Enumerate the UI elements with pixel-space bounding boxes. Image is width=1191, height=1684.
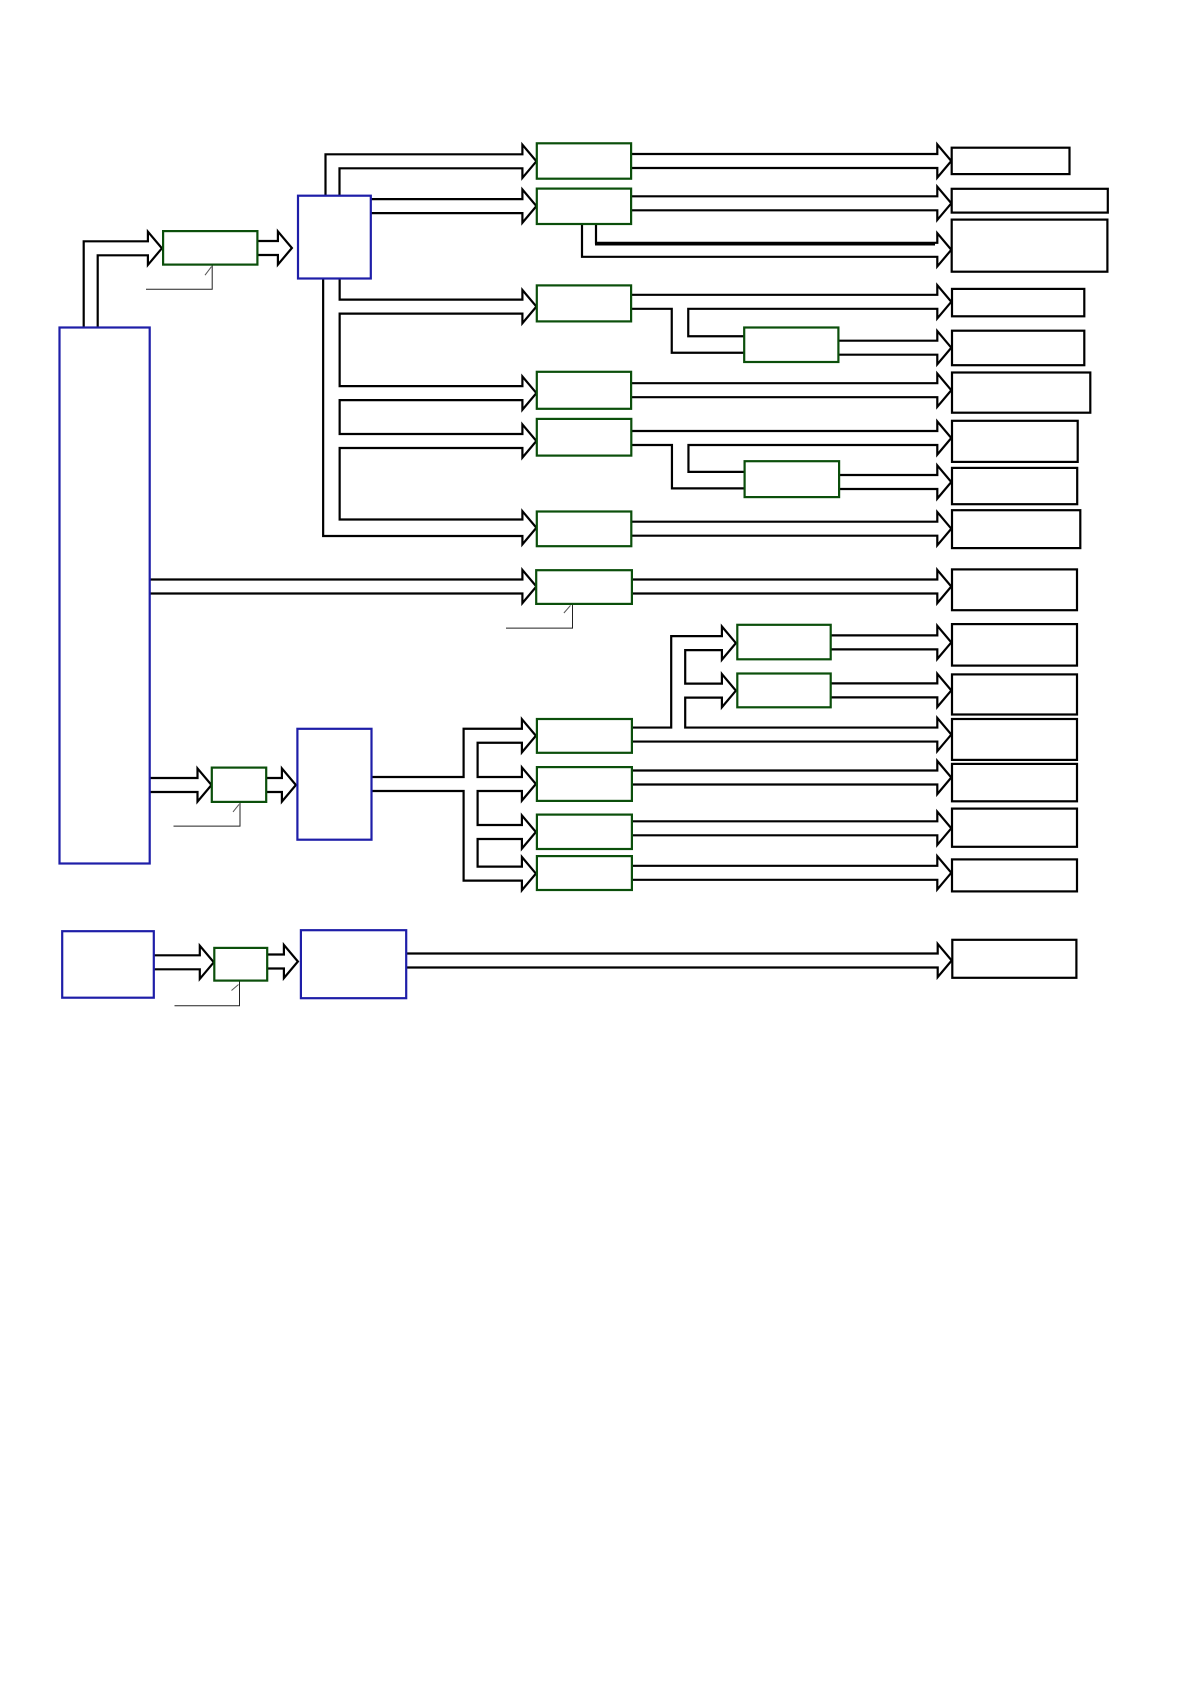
branch sub-bus to green box L (outline) <box>678 683 722 699</box>
arrowhead of wire green row4 to black box F <box>937 374 951 407</box>
wire green row8 to black box M (outline) <box>631 726 937 742</box>
callout leader of small green box 3 <box>175 981 240 1006</box>
arrowhead of branch bus1 to green row5 <box>522 424 536 457</box>
wire green row6 to black box I (hollow interior) <box>630 523 940 535</box>
arrowhead of wire mid green box 2 to black box H <box>937 465 951 498</box>
wire tall blue box to small green box 2 (hollow interior) <box>149 779 201 791</box>
branch row3 output down to mid green box 1 (outline) <box>680 302 747 345</box>
wire green row4 to black box F (outline) <box>630 382 937 398</box>
arrowhead of wire blue-box-1 top to green row1 <box>522 145 536 178</box>
callout leader of top-left green box <box>146 265 212 290</box>
wire mid green box 2 to black box H (hollow interior) <box>838 476 941 488</box>
wire green row10 to black box O (outline) <box>631 820 937 836</box>
arrowhead of branch sub-bus to green box L <box>722 674 736 707</box>
wire green row2 to black box B (outline) <box>630 195 937 211</box>
branch bus2 to green row10 (outline) <box>471 824 522 840</box>
arrowhead of wire small blue box 3 to small green box 3 <box>200 946 214 979</box>
green row4 box <box>537 372 631 409</box>
wire green row6 to black box I (outline) <box>630 521 937 537</box>
wire green row1 to black box A (outline) <box>630 153 937 169</box>
wire blue-box-1 right to green row2 (outline) <box>370 198 523 214</box>
branch bus1 to green row3 (outline) <box>331 299 522 315</box>
arrowhead of wire green row9 to black box N <box>937 761 951 794</box>
black box Q <box>952 940 1076 978</box>
arrowhead of branch bus2 to green row10 <box>522 815 536 848</box>
black box P <box>952 859 1077 891</box>
arrowhead of wire green row5 to black box G <box>937 421 951 454</box>
bus below blue-box-1 down to green row6 (outline) <box>331 278 522 528</box>
wire blue-box-1 right to green row2 (hollow interior) <box>370 200 526 212</box>
black box J <box>952 569 1077 610</box>
arrowhead of wire tall blue box top to top-left green box <box>148 232 162 265</box>
green box L (lower mid-right) <box>737 674 830 708</box>
black box N <box>952 764 1077 801</box>
arrowhead of wire mid green box 1 to black box E <box>937 331 951 364</box>
wire tall blue box to green row7 (outline) <box>149 578 523 594</box>
branch bus1 to green row4 (hollow interior) <box>331 387 525 399</box>
bus2 vertical row8 to row11 (hollow interior) <box>471 736 525 874</box>
wire green row4 to black box F (hollow interior) <box>630 384 940 396</box>
wire small blue box 3 to small green box 3 (outline) <box>153 954 200 970</box>
arrowhead of wire tall blue box to green row7 <box>522 570 536 603</box>
arrowhead of branch bus1 to green row4 <box>522 377 536 410</box>
wire green row2 to black box B (hollow interior) <box>630 197 940 209</box>
arrowhead of wire green row6 to black box I <box>937 512 951 545</box>
arrowhead of wire green row1 to black box A <box>937 144 951 177</box>
tall blue box (left source) <box>60 328 150 864</box>
wire green row3 to black box D (outline) <box>630 294 937 310</box>
black box C <box>952 220 1108 272</box>
wire green box K to black box K (outline) <box>830 634 938 650</box>
wire green row7 to black box J (hollow interior) <box>631 581 940 593</box>
sub-bus from row8 output up to green box K (hollow interior) <box>678 643 725 734</box>
arrowhead of wire small green box 2 to blue box 2 <box>282 768 296 801</box>
wire blue box 2 through bus to green row9 (hollow interior) <box>371 778 525 790</box>
wire green row2 bottom to black box C (hollow interior) <box>589 223 940 250</box>
bus2 vertical row8 to row11 (outline) <box>471 736 522 874</box>
green row1 box <box>537 143 631 178</box>
wire top-left green box to blue box 1 (hollow interior) <box>256 242 281 254</box>
black box I <box>952 510 1080 548</box>
wire blue-box-1 top to green row1 (outline) <box>333 161 523 196</box>
green row11 box <box>537 856 632 890</box>
arrowhead bus2 row8 <box>522 719 536 752</box>
small green box 2 <box>212 768 266 802</box>
wire mid green box 1 to black box E (hollow interior) <box>837 342 940 354</box>
top-left green box <box>163 231 257 265</box>
wire green row5 to black box G (outline) <box>630 430 937 446</box>
branch bus2 to green row10 (hollow interior) <box>471 826 525 838</box>
arrowhead of wire green row2 to black box B <box>937 187 951 220</box>
wire green row11 to black box P (hollow interior) <box>631 867 940 879</box>
wire green box L to black box L (hollow interior) <box>830 685 941 697</box>
wire green row3 to black box D (hollow interior) <box>630 296 940 308</box>
branch bus1 to green row5 (hollow interior) <box>331 435 525 447</box>
arrowhead of wire green row8 to black box M <box>937 718 951 751</box>
wire green row2 bottom to black box C (outline) <box>589 223 937 250</box>
wire green row5 to black box G (hollow interior) <box>630 432 940 444</box>
wire blue-box-1 top to green row1 (hollow interior) <box>333 161 526 196</box>
wire blue box 4 to black box Q (hollow interior) <box>405 955 941 967</box>
wire blue box 2 through bus to green row9 (outline) <box>371 776 522 792</box>
branch bus1 to green row3 (hollow interior) <box>331 301 525 313</box>
wire mid green box 1 to black box E (outline) <box>837 340 937 356</box>
black box O <box>952 809 1077 847</box>
wire top-left green box to blue box 1 (outline) <box>256 240 278 256</box>
black box H <box>952 468 1077 504</box>
green row8 box <box>537 719 632 753</box>
black box K <box>952 624 1077 666</box>
green row2 box <box>537 189 631 224</box>
arrowhead of wire top-left green box to blue box 1 <box>278 231 292 264</box>
branch row5 output down to mid green box 2 (outline) <box>680 438 747 480</box>
sub-bus from row8 output up to green box K (outline) <box>678 643 722 734</box>
wire blue box 4 to black box Q (outline) <box>405 952 938 968</box>
arrowhead of wire green box K to black box K <box>937 626 951 659</box>
black box M <box>952 719 1077 760</box>
branch bus1 to green row4 (outline) <box>331 385 522 401</box>
arrowhead of wire small green box 3 to blue box 4 <box>284 945 298 978</box>
arrowhead of wire green row3 to black box D <box>937 285 951 318</box>
branch bus1 to green row5 (outline) <box>331 433 522 449</box>
blue box 2 (lower hub) <box>297 729 371 840</box>
black box A <box>952 148 1070 174</box>
wire small blue box 3 to small green box 3 (hollow interior) <box>153 956 203 968</box>
wire small green box 3 to blue box 4 (outline) <box>266 953 284 969</box>
bus below blue-box-1 down to green row6 (hollow interior) <box>331 278 525 528</box>
branch row5 output down to mid green box 2 (hollow interior) <box>680 438 747 480</box>
wire tall blue box to small green box 2 (outline) <box>149 777 198 793</box>
wire small green box 2 to blue box 2 (outline) <box>265 777 282 793</box>
wire green row2 bottom to black box C thick upper line <box>595 243 935 246</box>
wire tall blue box top to top-left green box (outline) <box>91 248 148 328</box>
blue box 4 (bottom hub) <box>301 930 406 998</box>
arrowhead of wire green row2 bottom to black box C <box>937 233 951 266</box>
arrowhead of wire blue box 2 through bus to green row9 <box>522 767 536 800</box>
wire green box K to black box K (hollow interior) <box>830 637 941 649</box>
green row3 box <box>537 285 631 321</box>
small green box 3 <box>214 948 267 981</box>
arrowhead of wire tall blue box to small green box 2 <box>198 768 212 801</box>
callout leader of small green box 2 <box>174 802 241 826</box>
wire green row1 to black box A (hollow interior) <box>630 155 940 167</box>
arrowhead of wire blue-box-1 right to green row2 <box>522 190 536 223</box>
black box L <box>952 674 1077 714</box>
wire green row7 to black box J (outline) <box>631 578 937 594</box>
black box F <box>952 373 1090 413</box>
callout leader of green row7 box <box>506 604 573 628</box>
arrowhead bus2 row11 <box>522 857 536 890</box>
wire green row11 to black box P (outline) <box>631 865 937 881</box>
green row6 box <box>537 512 632 547</box>
wire tall blue box to green row7 (hollow interior) <box>149 581 526 593</box>
arrowhead of bus below blue-box-1 down to green row6 <box>522 511 536 544</box>
wire green row9 to black box N (outline) <box>631 769 937 785</box>
branch row3 output down to mid green box 1 (hollow interior) <box>680 302 747 345</box>
green row9 box <box>537 767 632 801</box>
arrowhead of wire green row10 to black box O <box>937 812 951 845</box>
wire green row8 to black box M (hollow interior) <box>631 729 940 741</box>
mid green box 2 <box>745 461 840 497</box>
black box G <box>952 421 1078 462</box>
blue box 1 (top hub) <box>298 196 371 279</box>
arrowhead of wire blue box 4 to black box Q <box>938 944 952 977</box>
black box E <box>952 331 1084 366</box>
arrowhead of branch bus1 to green row3 <box>522 290 536 323</box>
wire green row9 to black box N (hollow interior) <box>631 772 940 784</box>
wire tall blue box top to top-left green box (hollow interior) <box>91 248 151 328</box>
green row5 box <box>537 419 632 456</box>
black box B <box>952 189 1108 213</box>
arrowhead of wire green box L to black box L <box>937 674 951 707</box>
wire green row10 to black box O (hollow interior) <box>631 822 940 834</box>
small blue box 3 (bottom-left source) <box>62 931 154 998</box>
black box D <box>952 289 1084 316</box>
wire small green box 3 to blue box 4 (hollow interior) <box>266 956 287 968</box>
wire small green box 2 to blue box 2 (hollow interior) <box>265 779 285 791</box>
wire green box L to black box L (outline) <box>830 682 938 698</box>
arrowhead of sub-bus from row8 output up to green box K <box>722 627 736 660</box>
wire mid green box 2 to black box H (outline) <box>838 474 938 490</box>
arrowhead of wire green row7 to black box J <box>937 570 951 603</box>
branch sub-bus to green box L (hollow interior) <box>678 685 725 697</box>
green box K (upper mid-right) <box>737 625 830 660</box>
arrowhead of wire green row11 to black box P <box>937 856 951 889</box>
green row7 box <box>536 570 632 604</box>
mid green box 1 <box>744 328 838 363</box>
green row10 box <box>537 815 632 849</box>
